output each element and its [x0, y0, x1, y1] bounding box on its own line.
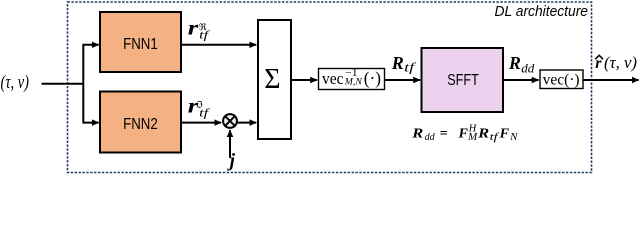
- multiplier circle (x): [223, 114, 237, 128]
- svg-text:(τ, ν): (τ, ν): [1, 72, 29, 93]
- equation R_dd = F_M^H R_tf F_N: [411, 124, 518, 144]
- svg-text:Σ: Σ: [264, 64, 280, 95]
- svg-text:(·): (·): [364, 68, 381, 89]
- label r_tf^Re: [188, 18, 211, 42]
- svg-text:FNN1: FNN1: [123, 36, 158, 53]
- label R_tf: [391, 53, 417, 75]
- wire: output arrow: [583, 79, 639, 81]
- DL architecture dashed boundary box: [68, 2, 592, 173]
- block FNN2: [100, 92, 181, 153]
- svg-text:R: R: [477, 127, 489, 142]
- svg-text:R: R: [508, 53, 521, 73]
- wire: j arrow into multiplier: [229, 130, 231, 158]
- block SFFT: [422, 48, 504, 112]
- label r-hat (tau, nu): [595, 53, 637, 72]
- block vec^-1_MN(.): [319, 68, 385, 90]
- svg-text:N: N: [509, 132, 518, 143]
- wire: input branch vertical: [82, 45, 84, 123]
- svg-text:vec(·): vec(·): [543, 72, 580, 89]
- svg-text:SFFT: SFFT: [447, 72, 479, 89]
- wire: arrow into FNN1: [82, 44, 98, 46]
- svg-text:DL architecture: DL architecture: [495, 3, 589, 20]
- wire: Sigma to vec-inverse: [291, 79, 317, 81]
- wire: arrow into FNN2: [82, 122, 98, 124]
- wire: multiplier to Sigma: [237, 122, 256, 124]
- svg-text:vec: vec: [322, 69, 344, 88]
- svg-text:=: =: [440, 127, 448, 142]
- wire: SFFT to vec: [503, 79, 539, 81]
- svg-text:R: R: [411, 127, 423, 142]
- label r_tf^Im: [188, 96, 211, 120]
- svg-text:M: M: [467, 132, 479, 143]
- svg-text:M,N: M,N: [344, 77, 363, 87]
- summation block Sigma: [258, 20, 291, 139]
- svg-text:r: r: [188, 18, 199, 40]
- svg-text:F: F: [499, 127, 510, 142]
- svg-text:R: R: [391, 53, 404, 73]
- svg-text:dd: dd: [521, 61, 535, 75]
- svg-text:dd: dd: [425, 132, 436, 143]
- svg-text:F: F: [457, 127, 468, 142]
- svg-text:(τ, ν): (τ, ν): [604, 53, 637, 72]
- block vec(.): [540, 70, 583, 89]
- block FNN1: [100, 12, 181, 72]
- svg-text:FNN2: FNN2: [123, 116, 158, 133]
- wire: input horizontal: [42, 83, 84, 85]
- wire: FNN2 to multiplier: [181, 122, 221, 124]
- label R_dd: [508, 53, 535, 76]
- svg-text:r: r: [188, 96, 199, 118]
- wire: FNN1 to Sigma: [181, 44, 256, 46]
- wire: vec-inverse to SFFT: [385, 79, 421, 81]
